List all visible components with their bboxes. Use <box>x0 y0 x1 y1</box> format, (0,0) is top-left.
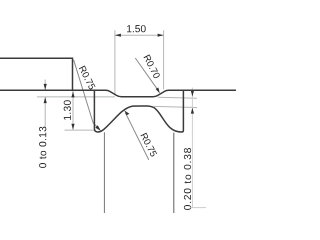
label R0.75 lower (rotated) <box>140 133 157 158</box>
arrow 1.50 right <box>158 34 164 37</box>
extension line: slot bottom level extended left for 1.30 dim <box>65 129 95 131</box>
dim text 1.30 (rotated) <box>64 100 71 120</box>
extension line: 1.50 left <box>114 30 116 94</box>
leader arrow R0.75 upper <box>95 125 101 131</box>
leader arrow R0.75 lower <box>124 110 129 115</box>
label R0.70 (rotated) <box>143 54 160 79</box>
step top surface (left) <box>0 58 73 90</box>
arrow 0-0.13 top (points down at surface) <box>44 84 47 90</box>
leader R0.75 upper <box>74 60 98 127</box>
arrow 0-0.13 bottom (points up at flat level) <box>44 97 47 103</box>
dim text 0.20 to 0.38 (rotated) <box>184 148 191 210</box>
dim text 1.50 <box>127 25 146 32</box>
extension line: mid-flat level extended left for 0-0.13 dim <box>37 96 115 98</box>
extension line: 1.50 right <box>163 30 165 89</box>
arrow 0.20-0.38 bottom (points up at crest ext) <box>191 108 194 114</box>
extension line: flat level extended right for 0.20-0.38 dim <box>158 97 197 98</box>
dimension line 1.50 <box>115 34 164 36</box>
lower extension line left <box>103 132 105 213</box>
label R0.75 upper (rotated) <box>79 65 96 90</box>
main top surface with shallow depression <box>0 90 236 97</box>
faint tick at bottom of 0.20-0.38 dim <box>191 207 207 209</box>
slot walls and flange dome <box>94 90 183 132</box>
dim text 0 to 0.13 (rotated) <box>39 127 46 168</box>
leader R0.75 lower <box>126 113 149 160</box>
arrow 1.30 bottom (points down) <box>71 124 74 130</box>
leader arrow R0.70 <box>156 87 160 93</box>
lower extension line right <box>173 133 175 213</box>
arrow 1.50 left <box>115 34 121 37</box>
dim line 1.30 (vertical at x=73) <box>72 91 74 130</box>
dim line 0 to 0.13 (vertical at x=45.2) <box>44 80 46 90</box>
arrow 1.30 top (points up) <box>71 91 74 97</box>
dim line 0.20 to 0.38 (vertical at x=192.4) <box>191 88 193 208</box>
leader R0.70 <box>135 58 158 90</box>
arrow 0.20-0.38 top (points down at flat ext) <box>191 91 194 97</box>
extension line: crest level extended right for 0.20-0.38 dim <box>154 106 197 107</box>
